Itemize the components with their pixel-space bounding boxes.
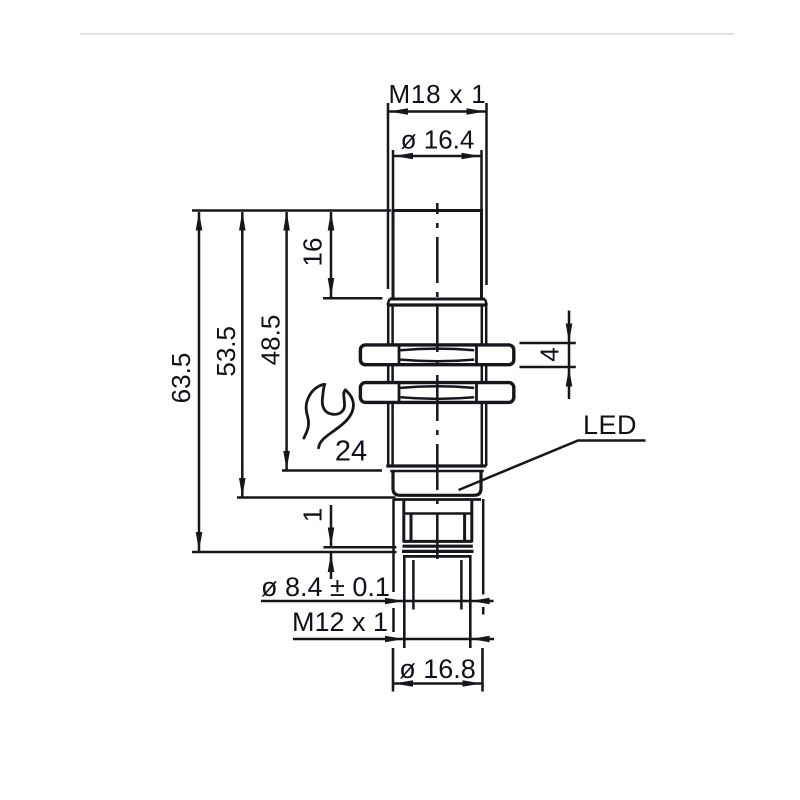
M12 dimension line — [293, 638, 494, 641]
dimension 1 lower arrow line — [330, 553, 333, 580]
M12 plug right wall — [469, 555, 472, 648]
dia8.4 dimension line — [261, 600, 494, 603]
extension line 53.5 bottom — [237, 496, 396, 499]
dimension 53.5 arrow up — [239, 212, 246, 231]
svg-text:LED: LED — [583, 410, 637, 440]
dimension 63.5 line — [198, 212, 201, 551]
thread segment C root right — [481, 404, 484, 467]
collar bottom edge — [403, 540, 473, 543]
dimension 63.5 arrow up — [196, 212, 203, 231]
dia16.4 extension line right — [480, 150, 483, 211]
extension line 16 bottom — [323, 297, 382, 300]
dimension 48.5 line — [285, 212, 288, 470]
dia8.4 left outer extension line upper — [392, 499, 395, 592]
dia8.4 left outer extension line lower — [392, 608, 395, 632]
dimension 4 upper arrowhead — [566, 324, 573, 343]
hex nut 1 center facet bottom arc — [400, 360, 474, 362]
connector collar inner line — [404, 512, 472, 515]
collar chamfer left diagonal — [388, 299, 390, 305]
M12 plug left wall — [403, 555, 406, 648]
top reference extension line — [192, 209, 391, 212]
thread segment B outer right — [485, 366, 488, 382]
sensor tip top face — [392, 209, 484, 212]
dimension 1 upper arrowhead — [328, 528, 335, 547]
dimension 1 lower arrowhead — [328, 553, 335, 572]
hex nut 2 facet line left — [398, 382, 401, 403]
M18 extension line right — [485, 103, 488, 285]
wrench icon — [304, 384, 353, 447]
dia16.4 arrow left — [394, 153, 413, 160]
svg-text:M18 x 1: M18 x 1 — [388, 79, 486, 109]
dia8.4 arrow pointing right — [385, 598, 404, 605]
dia8.4 right outer extension line upper — [482, 499, 485, 595]
svg-text:ø 16.8: ø 16.8 — [399, 654, 476, 684]
dimension 4 lower extension line — [520, 366, 576, 369]
M12 arrow pointing right — [385, 636, 404, 643]
thread end step line — [386, 464, 486, 467]
dia16.4 arrow right — [462, 153, 481, 160]
dia8.4 arrow pointing left — [471, 598, 490, 605]
dimension 48.5 arrow down — [283, 451, 290, 470]
dimension 63.5 arrow down — [196, 532, 203, 551]
dimension 16 line — [330, 212, 333, 297]
plug inner line right — [460, 560, 463, 610]
thread segment B root left — [391, 366, 394, 382]
dia16.8 arrow left — [394, 680, 413, 687]
svg-text:1: 1 — [298, 508, 328, 522]
dia16.8 extension line right — [481, 648, 484, 692]
extension line 48.5 bottom — [282, 469, 382, 472]
M12 arrow pointing left — [471, 636, 490, 643]
thread segment C outer left — [387, 404, 390, 467]
LED leader line — [459, 441, 646, 491]
dia8.4 right outer extension line lower — [482, 607, 485, 615]
dia16.8 dimension line — [393, 682, 483, 685]
collar chamfer right diagonal — [485, 299, 487, 305]
dimension 1 upper tick — [323, 546, 396, 549]
collar lower line — [387, 303, 487, 306]
dimension 53.5 line — [241, 212, 244, 497]
thread segment C outer right — [485, 404, 488, 467]
step second line — [390, 470, 484, 473]
svg-text:63.5: 63.5 — [166, 353, 196, 404]
dia16.4 extension line left — [392, 150, 395, 211]
collar chamfer upper line — [390, 298, 486, 301]
thread segment A root right — [481, 305, 484, 344]
plug inner line left — [412, 560, 415, 610]
thread segment B outer left — [387, 366, 390, 382]
svg-text:M12 x 1: M12 x 1 — [292, 607, 388, 637]
dimension 16 arrow down — [328, 278, 335, 297]
hex nut 1 center facet top arc — [400, 349, 474, 351]
svg-text:ø 16.4: ø 16.4 — [401, 125, 475, 155]
svg-text:4: 4 — [535, 347, 565, 361]
M18 extension line left — [387, 103, 390, 289]
hex nut 1 outline — [360, 345, 513, 365]
svg-text:53.5: 53.5 — [211, 326, 241, 377]
separator rule top — [80, 33, 734, 35]
svg-text:16: 16 — [298, 238, 328, 267]
washer line 2 — [402, 550, 474, 553]
dia16.4 dimension line — [393, 155, 482, 158]
svg-text:ø 8.4 ± 0.1: ø 8.4 ± 0.1 — [261, 572, 390, 602]
M18 dimension line — [388, 110, 487, 113]
dia16.8 arrow right — [463, 680, 482, 687]
LED ring housing — [393, 471, 481, 495]
centerline — [436, 203, 439, 561]
thread segment A outer right — [485, 305, 488, 344]
hex nut 2 facet line right — [475, 382, 478, 403]
hex nut 1 facet line right — [475, 345, 478, 366]
dimension 16 arrow up — [328, 212, 335, 231]
dimension 48.5 arrow up — [283, 212, 290, 231]
thread segment A root left — [391, 305, 394, 344]
dimension 1 upper arrow line — [330, 505, 333, 546]
connector collar right wall — [470, 500, 473, 543]
dimension 4 lower arrowhead — [566, 368, 573, 387]
thread segment C root left — [391, 404, 394, 467]
extension line 63.5 bottom — [192, 551, 397, 554]
dimension 4 vertical line — [568, 311, 571, 400]
thread segment A outer left — [387, 305, 390, 344]
hex nut 2 outline — [360, 383, 513, 403]
dia16.8 extension line left — [392, 648, 395, 692]
connector collar left wall — [402, 500, 405, 543]
connector collar top edge — [394, 498, 481, 501]
washer line 1 — [403, 545, 473, 548]
dimension 4 upper extension line — [520, 342, 576, 345]
M18 arrow right — [467, 108, 486, 115]
thread segment B root right — [481, 366, 484, 382]
svg-text:24: 24 — [335, 436, 367, 468]
connector inner right wall — [463, 514, 466, 542]
hex nut 1 facet line left — [398, 345, 401, 366]
M18 arrow left — [389, 108, 408, 115]
sensor tip right wall — [480, 211, 483, 300]
dimension 53.5 arrow down — [239, 478, 246, 497]
hex nut 2 center facet bottom arc — [400, 397, 474, 399]
sensor tip left wall — [392, 211, 395, 300]
connector inner left wall — [410, 514, 413, 542]
M12 plug top edge — [405, 555, 470, 558]
hex nut 2 center facet top arc — [400, 386, 474, 388]
svg-text:48.5: 48.5 — [256, 315, 286, 366]
